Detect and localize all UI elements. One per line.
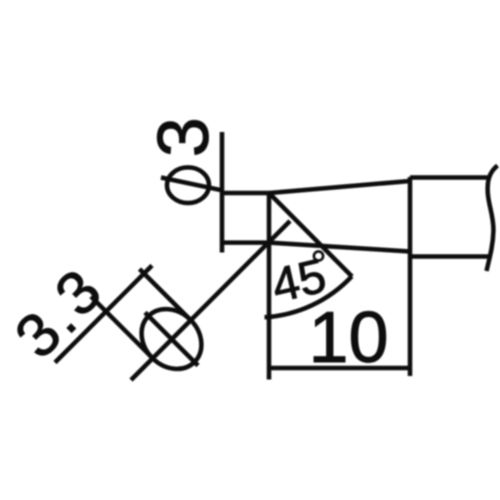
cone bottom line — [270, 243, 411, 252]
degree ring of 45 — [314, 251, 323, 260]
leader line — [131, 221, 290, 380]
cone top line — [270, 181, 411, 193]
phi symbol slash — [161, 178, 222, 191]
phi symbol circle — [167, 167, 209, 203]
tip top line — [222, 191, 270, 196]
10 dimension line — [269, 366, 410, 371]
45 deg arc — [265, 276, 352, 317]
tangent extension lower — [91, 297, 153, 359]
break curve — [487, 166, 498, 272]
body bottom edge — [410, 254, 491, 259]
tip bottom line — [222, 240, 270, 245]
ellipse chord — [145, 313, 198, 366]
bevel face ellipse — [129, 297, 213, 381]
body top edge — [410, 175, 488, 180]
tangent extension upper — [140, 269, 191, 320]
tip shoulder vertical / 10-dim left extension — [267, 193, 272, 380]
bevel diagonal 45 — [270, 194, 352, 277]
3.3 dimension line — [55, 266, 152, 363]
svg-text:3: 3 — [144, 117, 224, 157]
extension line for φ3 — [220, 132, 225, 253]
body left edge / 10-dim right extension — [408, 177, 413, 376]
svg-text:10: 10 — [308, 298, 388, 378]
